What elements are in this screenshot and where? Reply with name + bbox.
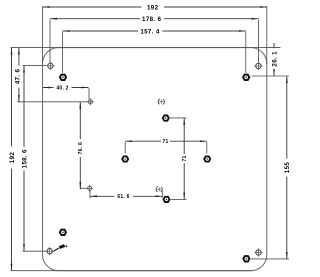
svg-text:158. 6: 158. 6 (21, 149, 28, 169)
svg-text:47. 6: 47. 6 (15, 68, 22, 84)
svg-text:61. 6: 61. 6 (117, 194, 129, 200)
svg-text:178. 6: 178. 6 (142, 16, 162, 23)
svg-text:192: 192 (147, 4, 159, 11)
svg-text:71: 71 (162, 139, 168, 145)
svg-text:76. 6: 76. 6 (78, 142, 84, 154)
svg-text:192: 192 (9, 152, 16, 164)
svg-text:26. 1: 26. 1 (271, 51, 278, 67)
svg-text:40. 2: 40. 2 (56, 85, 68, 91)
svg-text:157. 4: 157. 4 (140, 28, 160, 35)
svg-text:71: 71 (182, 155, 188, 161)
svg-text:155: 155 (284, 162, 291, 174)
